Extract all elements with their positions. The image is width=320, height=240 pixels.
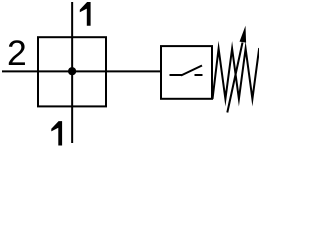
svg-text:2: 2 xyxy=(7,33,27,73)
